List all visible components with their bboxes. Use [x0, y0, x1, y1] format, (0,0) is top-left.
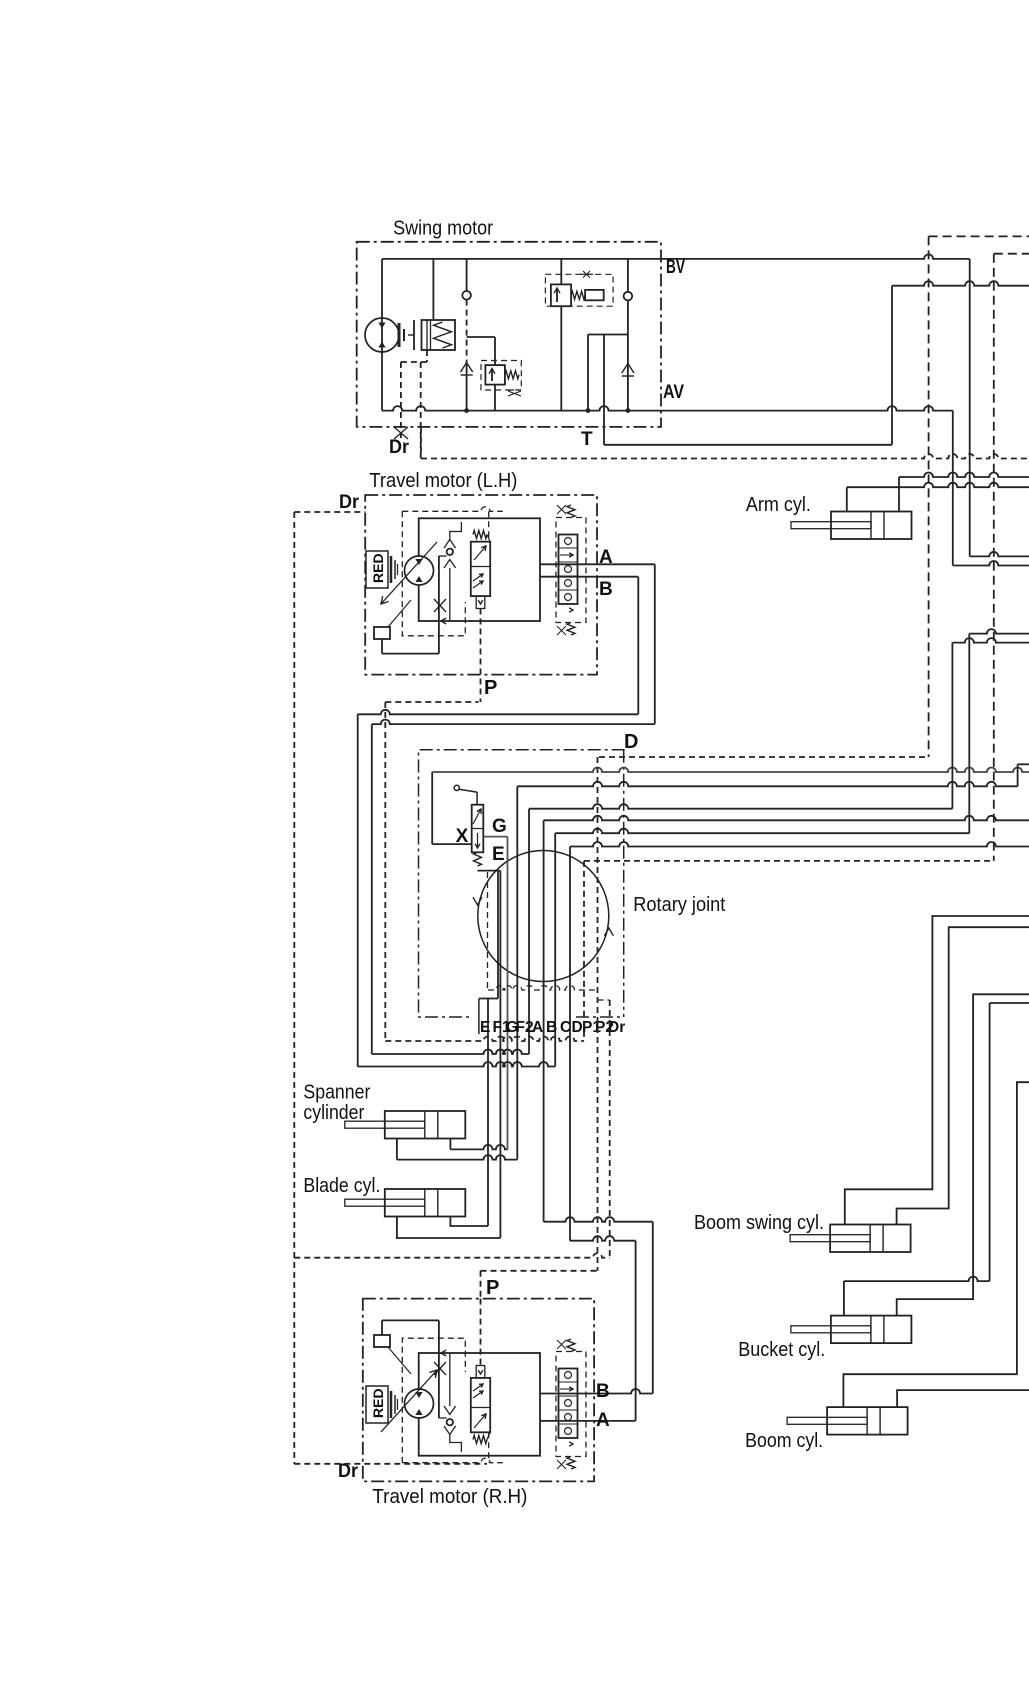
svg-text:Spanner: Spanner [303, 1082, 370, 1104]
svg-text:Arm cyl.: Arm cyl. [746, 494, 811, 516]
svg-text:C: C [560, 1019, 571, 1036]
wire port D to RH travel [570, 1236, 636, 1241]
svg-text:Swing motor: Swing motor [393, 218, 493, 240]
svg-text:RED: RED [370, 553, 386, 583]
relief valve RV1 (center bottom) [485, 365, 505, 385]
svg-text:Boom swing cyl.: Boom swing cyl. [694, 1212, 824, 1234]
pilot selector valve lever [454, 785, 459, 790]
shuttle valve S1 [461, 363, 473, 373]
pilot drain dashes from brake [426, 350, 428, 362]
LH valve spring [473, 531, 487, 539]
pilot line top right second (dashed) [994, 253, 1029, 255]
wire boom swing rod-side [897, 927, 1029, 1224]
RH valve top stub [476, 1366, 485, 1378]
pilot selector valve body [472, 805, 484, 853]
brake cylinder [422, 320, 456, 350]
spanner cylinder body [385, 1111, 466, 1139]
svg-text:Blade cyl.: Blade cyl. [303, 1175, 380, 1197]
RH motor pipe loop [419, 1353, 540, 1456]
rotary joint housing stub [478, 999, 480, 1035]
check valve CV1 [466, 259, 468, 291]
boom cylinder rod [787, 1417, 867, 1424]
port line G [507, 837, 509, 1150]
svg-text:A: A [596, 1410, 610, 1431]
wire E port [478, 870, 501, 872]
RH variable displacement arrow [381, 1370, 437, 1432]
pilot drain Dr (dashed) [609, 1000, 611, 1258]
pilot line P1 (dashed) [584, 860, 994, 862]
wire X port [432, 843, 472, 845]
svg-text:E: E [480, 1019, 490, 1036]
svg-text:A: A [599, 547, 613, 568]
wire B to left [358, 710, 639, 714]
LH variable displacement arrow [381, 542, 437, 604]
boom swing cylinder rod [790, 1235, 870, 1242]
wire spanner rod-side [449, 1139, 451, 1150]
svg-text:B: B [596, 1381, 610, 1402]
travel motor RH enclosure [363, 1299, 594, 1482]
svg-text:D: D [624, 731, 638, 753]
wire boom swing head-side [845, 916, 1029, 1225]
bucket cylinder rod [791, 1326, 871, 1333]
pilot line P2 (dashed) [599, 756, 929, 758]
LH motor pipe loop [419, 518, 540, 621]
wire blade rod-side [450, 1217, 488, 1227]
check valve CV2 [627, 259, 629, 292]
LH check valve pair [447, 549, 453, 555]
wire A down [654, 564, 656, 724]
svg-text:E: E [492, 844, 505, 865]
arm cylinder body [831, 512, 912, 540]
wire relief riser [560, 259, 562, 285]
wire bucket rod-side [897, 994, 1029, 1315]
svg-text:P: P [484, 677, 497, 699]
drain throttle X [394, 427, 408, 439]
RH pilot P dashed into valve [480, 1299, 482, 1366]
RH cb spring bottom [567, 1457, 575, 1470]
LH inner pilot box dashed [402, 507, 502, 512]
svg-text:Travel motor (R.H): Travel motor (R.H) [372, 1486, 527, 1508]
wire AV to valve bank [952, 411, 954, 566]
wire AV bottom rail [382, 406, 953, 411]
svg-text:RED: RED [370, 1388, 386, 1418]
wire B down [637, 577, 639, 715]
wire D to right edge [570, 842, 1029, 847]
LH throttle X [434, 599, 446, 612]
svg-text:G: G [492, 816, 507, 837]
port line F2 [516, 786, 518, 1159]
spanner cylinder rod [345, 1121, 425, 1128]
boom swing cylinder body [830, 1225, 911, 1253]
port line A [528, 809, 530, 1054]
svg-text:cylinder: cylinder [303, 1102, 364, 1124]
wire port C to RH travel [544, 1217, 653, 1222]
RH counterbalance valve [556, 1352, 586, 1457]
LH bottom rail drain arrow [441, 618, 446, 624]
LH drain shuttle box [388, 600, 411, 627]
shuttle valve S2 [622, 364, 634, 374]
LH control valve [471, 542, 490, 596]
svg-text:AV: AV [663, 382, 684, 403]
wire F2 to right [517, 782, 1017, 786]
svg-text:Boom cyl.: Boom cyl. [745, 1430, 823, 1452]
svg-text:Rotary joint: Rotary joint [633, 894, 725, 916]
RH check valve pair [447, 1419, 453, 1425]
relief valve RV2 (top right) with pilot [545, 274, 613, 306]
arm cylinder rod [791, 522, 871, 529]
RH valve spring [473, 1436, 487, 1444]
travel motor LH enclosure [365, 495, 597, 675]
wire arm head-side [846, 487, 848, 511]
wire A to right [529, 804, 952, 808]
LH RED label box [366, 551, 388, 588]
port line B [543, 820, 545, 1221]
wire LH B port [540, 576, 638, 578]
coupling shaft [398, 323, 401, 347]
wire G port [483, 836, 507, 838]
wire left supply [381, 259, 383, 411]
svg-text:Dr: Dr [389, 437, 410, 458]
LH pilot P dashed [480, 609, 482, 703]
svg-text:Travel motor (L.H): Travel motor (L.H) [369, 470, 517, 492]
LH valve bottom stub [476, 596, 485, 608]
dashed box around joint bottom [488, 986, 598, 991]
RH throttle X [434, 1362, 446, 1375]
wire C to right [555, 829, 969, 834]
LH cb spring bottom [567, 623, 575, 636]
swing motor symbol M [365, 318, 399, 352]
wire blade head-side [397, 1217, 501, 1239]
wire port C return (to LH travel) [358, 1062, 556, 1067]
wire A to left [372, 720, 655, 725]
RH inner pilot box dashed [402, 1458, 502, 1463]
wire arm rod-side [898, 477, 900, 512]
port line E [497, 871, 499, 999]
RH top rail drain arrow [441, 1350, 446, 1356]
blade cylinder body [385, 1189, 466, 1217]
RH drain shuttle box [388, 1347, 411, 1374]
RH control valve [471, 1378, 490, 1432]
wire BV top rail [382, 254, 970, 259]
RH motor circle [405, 1389, 434, 1418]
wire pilot X to right edge [432, 768, 1029, 773]
wire LH A port [540, 563, 655, 565]
wire port A return (to LH travel) [372, 1050, 529, 1055]
wire boom head-side [843, 1082, 1029, 1407]
drain rail left (dashed) [294, 511, 365, 513]
LH motor circle [405, 556, 434, 585]
svg-text:Bucket cyl.: Bucket cyl. [738, 1339, 825, 1361]
wire branch to relief [588, 334, 628, 336]
port line C [554, 833, 556, 1066]
wire RH A port [540, 1420, 636, 1422]
valve spring E side [474, 852, 482, 866]
wire BV to valve bank [969, 259, 971, 557]
wire RH B port [540, 1389, 653, 1394]
wire boom rod-side [897, 1390, 1029, 1407]
wire spanner head-side [396, 1139, 398, 1160]
port line D [569, 847, 571, 1241]
svg-text:B: B [599, 579, 613, 600]
junction dots swing bottom rail [464, 408, 469, 413]
bucket cylinder body [831, 1316, 912, 1344]
svg-text:Dr: Dr [339, 492, 360, 513]
boom cylinder body [827, 1407, 908, 1435]
pilot box D (dash-dot) [419, 750, 625, 1017]
pilot line top right (dashed box BV side) [929, 235, 1029, 237]
RH drain dashed [294, 1463, 487, 1465]
svg-text:A: A [532, 1019, 543, 1036]
svg-text:B: B [546, 1019, 557, 1036]
blade cylinder rod [345, 1199, 425, 1206]
svg-text:BV: BV [666, 257, 685, 278]
LH counterbalance valve [556, 518, 586, 623]
svg-text:P: P [486, 1277, 499, 1299]
svg-text:T: T [581, 429, 593, 450]
LH cb spring top [567, 505, 575, 518]
port line F1 [499, 871, 501, 1238]
wire bucket head-side [844, 1277, 990, 1282]
wire brake supply [432, 259, 434, 320]
swing motor enclosure box [357, 242, 661, 427]
RH RED label box [366, 1386, 388, 1423]
rotary joint circle [478, 851, 609, 982]
pilot drain long dashed line [420, 427, 422, 459]
RH cb spring top [567, 1339, 575, 1352]
wire B to right edge [544, 816, 1029, 820]
svg-text:F2: F2 [516, 1019, 534, 1036]
wire T line [603, 335, 605, 445]
